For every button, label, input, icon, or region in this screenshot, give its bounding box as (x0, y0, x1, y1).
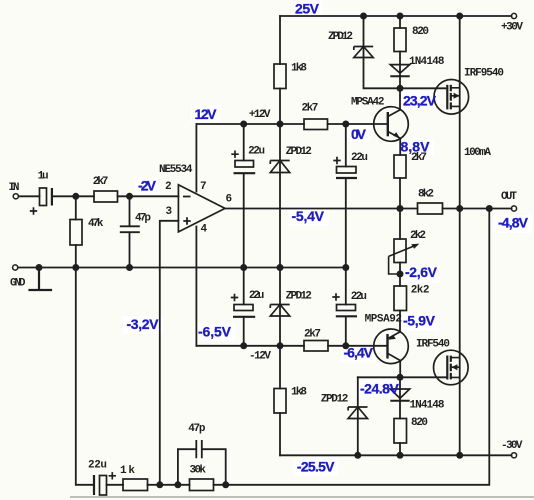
svg-text:OUT: OUT (501, 191, 517, 203)
wire ZPD12 Z3 column (279, 268, 281, 346)
label background patches (123, 1, 532, 476)
wire op-amp pin 7 supply (195, 124, 197, 192)
svg-text:+12V: +12V (249, 109, 271, 121)
resistor 820 lower (394, 419, 407, 444)
svg-text:-30V: -30V (501, 440, 523, 452)
wire ZPD12 Z2 column (279, 124, 281, 268)
svg-text:820: 820 (412, 26, 429, 38)
svg-text:23,2V: 23,2V (403, 93, 437, 109)
svg-text:820: 820 (411, 417, 428, 429)
zener ZPD12 Z3 (270, 305, 289, 317)
resistor 2k7 input (94, 191, 118, 202)
wire lower gate node (358, 376, 448, 378)
wire ground rail (18, 267, 346, 269)
svg-text:1N4148: 1N4148 (409, 56, 445, 68)
terminal +30V (511, 13, 516, 18)
svg-text:NE5534: NE5534 (159, 164, 193, 176)
ground symbol (30, 268, 52, 291)
svg-text:2k2: 2k2 (410, 230, 426, 242)
resistor 2k7 base filter upper (304, 119, 328, 130)
svg-text:22u: 22u (88, 460, 107, 472)
svg-text:ZPD12: ZPD12 (286, 146, 312, 158)
resistor 30k feedback (190, 479, 214, 491)
svg-text:-5,9V: -5,9V (403, 313, 436, 329)
svg-text:25V: 25V (295, 1, 320, 17)
svg-text:-5,4V: -5,4V (292, 208, 325, 224)
svg-text:100mA: 100mA (464, 147, 491, 159)
capacitor 47p feedback (196, 440, 202, 458)
svg-text:6: 6 (226, 194, 233, 206)
svg-text:IRF540: IRF540 (416, 339, 450, 351)
svg-text:2k7: 2k7 (302, 103, 319, 115)
svg-text:12V: 12V (195, 106, 218, 122)
svg-text:2: 2 (165, 181, 172, 193)
svg-text:22u: 22u (351, 152, 368, 164)
svg-text:47p: 47p (188, 423, 206, 435)
svg-text:4: 4 (201, 224, 208, 236)
wire trimmer chain column (399, 209, 401, 332)
svg-text:1N4148: 1N4148 (410, 400, 445, 412)
wire 47p C column (129, 196, 131, 267)
svg-text:47p: 47p (135, 213, 151, 225)
wire 1k8 lower leads (279, 346, 281, 456)
svg-text:1k8: 1k8 (291, 387, 307, 399)
diode 1N4148 upper (390, 65, 409, 77)
svg-text:47k: 47k (88, 218, 104, 230)
svg-text:-3,2V: -3,2V (127, 316, 160, 332)
svg-text:22u: 22u (248, 146, 265, 158)
svg-text:8k2: 8k2 (418, 189, 434, 201)
zener ZPD12 Z1 (354, 47, 373, 58)
zener ZPD12 Z2 (270, 161, 289, 173)
svg-text:+30V: +30V (501, 22, 523, 34)
wire 22u C3 column (243, 268, 245, 346)
wire +12V rail to op-amp and base (196, 123, 387, 125)
capacitor 1u input electrolytic (30, 188, 52, 215)
svg-text:1k: 1k (120, 465, 135, 477)
wire -12V rail to op-amp and base (196, 345, 387, 347)
svg-text:ZPD12: ZPD12 (321, 394, 349, 406)
terminal IN (13, 194, 18, 199)
svg-text:-6,5V: -6,5V (198, 324, 232, 340)
wire 22u C4 column (345, 268, 347, 346)
svg-text:ZPD12: ZPD12 (328, 31, 353, 43)
svg-text:1k8: 1k8 (291, 63, 307, 75)
resistor 1k feedback (123, 479, 148, 491)
diode 1N4148 lower (390, 389, 409, 401)
page scan line (70, 496, 534, 498)
svg-text:-12V: -12V (249, 351, 271, 363)
wire bottom feedback network (107, 484, 190, 486)
svg-text:2k2: 2k2 (411, 285, 430, 297)
wire ZPD12 Z1 column and gate node (364, 16, 448, 88)
wire +25V top rail (280, 15, 512, 17)
svg-text:2k7: 2k7 (304, 329, 321, 341)
wire input network (19, 195, 179, 197)
svg-text:30k: 30k (190, 465, 207, 477)
svg-text:22u: 22u (351, 291, 367, 303)
wire MPSA92 collector / 1N4148 / 820 lower column (399, 361, 401, 456)
op-amp plus input mark (183, 217, 190, 224)
capacitor 22u C3 (231, 294, 255, 317)
svg-text:MPSA42: MPSA42 (351, 97, 385, 109)
wire 22u C2 column (345, 124, 347, 268)
svg-text:7: 7 (200, 181, 207, 193)
svg-text:-25.5V: -25.5V (297, 459, 335, 475)
wire IRF9540 drain-source column 100mA (459, 16, 461, 209)
wire 1k8 upper leads (279, 16, 281, 124)
svg-text:-2V: -2V (138, 178, 157, 194)
terminal GND (13, 265, 18, 270)
wire ZPD12 Z4 column (357, 377, 359, 455)
resistor 2k7 base filter lower (304, 341, 328, 352)
capacitor 22u C2 (333, 157, 357, 178)
trimmer 2k2 body (394, 239, 406, 263)
wire IRF540 drain-source column (459, 209, 461, 456)
resistor 1k8 lower (274, 389, 286, 414)
svg-text:8,8V: 8,8V (401, 139, 431, 155)
wire 820 / 1N4148 upper column (399, 16, 401, 110)
wire feedback from OUT (214, 209, 490, 485)
capacitor 22u C5 feedback electrolytic (94, 472, 116, 495)
zener ZPD12 Z4 (348, 407, 367, 419)
svg-text:0V: 0V (351, 126, 367, 142)
svg-text:-4,8V: -4,8V (498, 215, 529, 231)
transistor MPSA42 (374, 107, 409, 142)
svg-text:MPSA92: MPSA92 (365, 314, 402, 326)
svg-text:2k7: 2k7 (93, 176, 109, 188)
trimmer 2k2 wiper arrow (389, 246, 415, 274)
resistor 820 upper (394, 28, 406, 52)
svg-text:-6,4V: -6,4V (344, 345, 374, 361)
capacitor 47p input (120, 226, 140, 232)
wire op-amp pin 3 feedback column (160, 221, 179, 485)
capacitor 22u C4 (332, 293, 357, 316)
svg-text:-2,6V: -2,6V (405, 264, 438, 280)
wire 22u C1 column (243, 124, 245, 268)
svg-text:GND: GND (10, 278, 26, 290)
resistor 2k7 emitter MPSA42 (394, 155, 406, 178)
wire output rail (225, 208, 512, 210)
svg-text:IRF9540: IRF9540 (464, 68, 504, 80)
wire 47k column and ground branch down (76, 196, 94, 485)
resistor 2k2 (394, 286, 407, 311)
terminal OUT (511, 206, 516, 211)
mosfet IRF9540 (434, 80, 469, 115)
transistor MPSA92 (374, 329, 409, 364)
resistor 8k2 (418, 203, 443, 214)
svg-text:IN: IN (9, 182, 20, 194)
op-amp NE5534 triangle (178, 185, 225, 232)
svg-text:1u: 1u (38, 171, 49, 183)
wire -30V bottom rail (280, 454, 512, 456)
wire 47p C2 bypass loop (178, 449, 226, 485)
resistor 1k8 upper (274, 64, 286, 89)
terminal -30V (511, 453, 516, 458)
svg-text:ZPD12: ZPD12 (286, 291, 312, 303)
op-amp minus input mark (183, 196, 191, 198)
capacitor 22u C1 (231, 151, 255, 174)
wire MPSA42 emitter to 2k7 to rail (399, 138, 401, 208)
mosfet IRF540 (434, 350, 469, 385)
resistor 47k (70, 220, 82, 246)
svg-text:-24.8V: -24.8V (360, 381, 399, 397)
svg-text:22u: 22u (249, 290, 264, 302)
wire op-amp pin 4 supply (195, 227, 197, 346)
svg-text:3: 3 (166, 206, 173, 218)
